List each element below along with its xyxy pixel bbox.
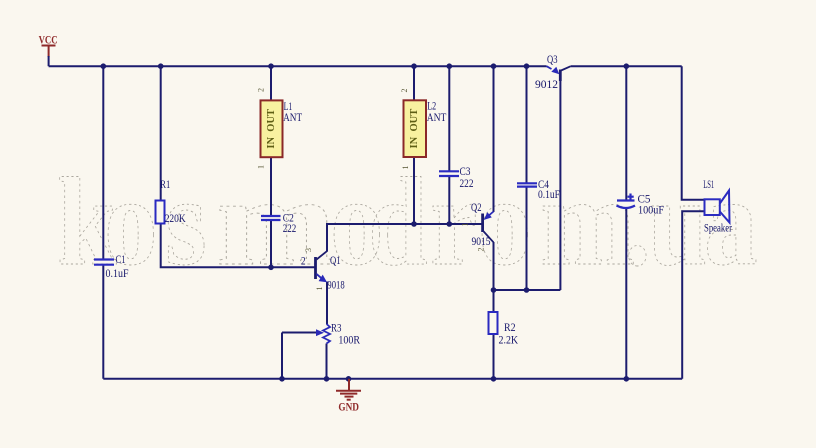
svg-text:.: .	[624, 153, 651, 292]
svg-text:u: u	[648, 153, 708, 292]
svg-text:222: 222	[460, 176, 474, 190]
svg-text:9018: 9018	[327, 278, 344, 292]
svg-text:ANT: ANT	[283, 110, 303, 124]
svg-text:100R: 100R	[338, 332, 360, 346]
svg-text:0.1uF: 0.1uF	[538, 187, 560, 201]
svg-text:IN OUT: IN OUT	[409, 109, 420, 149]
svg-text:2: 2	[257, 88, 266, 92]
svg-text:Speaker: Speaker	[704, 221, 732, 235]
svg-text:2: 2	[400, 89, 409, 93]
svg-text:R1: R1	[160, 177, 170, 191]
svg-text:m: m	[216, 153, 336, 292]
svg-text:9012: 9012	[535, 77, 558, 91]
svg-text:VCC: VCC	[39, 33, 58, 47]
svg-text:3: 3	[304, 248, 313, 252]
svg-text:2: 2	[301, 254, 306, 268]
svg-text:d: d	[368, 153, 428, 292]
svg-text:220K: 220K	[165, 211, 186, 225]
svg-text:1: 1	[315, 287, 324, 291]
svg-text:9015: 9015	[472, 234, 491, 248]
svg-text:Q1: Q1	[330, 253, 341, 267]
svg-text:ANT: ANT	[427, 110, 447, 124]
svg-text:m: m	[540, 153, 635, 292]
svg-text:222: 222	[283, 221, 297, 235]
svg-text:LS1: LS1	[703, 177, 714, 191]
svg-text:1: 1	[461, 223, 470, 227]
svg-text:IN OUT: IN OUT	[266, 109, 277, 149]
svg-text:0.1uF: 0.1uF	[106, 266, 129, 280]
svg-text:GND: GND	[338, 400, 359, 414]
svg-text:2.2K: 2.2K	[499, 333, 519, 347]
svg-text:Q3: Q3	[547, 52, 558, 66]
svg-text:2: 2	[477, 248, 486, 252]
svg-text:1: 1	[401, 166, 410, 170]
svg-text:o: o	[478, 153, 532, 292]
svg-text:1: 1	[257, 165, 266, 169]
svg-text:Q2: Q2	[471, 200, 482, 214]
svg-text:100uF: 100uF	[638, 202, 664, 216]
svg-text:C1: C1	[116, 252, 126, 266]
